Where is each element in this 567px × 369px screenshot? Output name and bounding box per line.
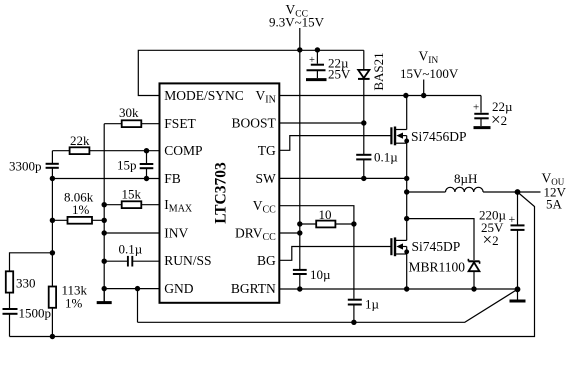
node junction VIN stub: [421, 93, 426, 98]
capacitor C8 15p: [140, 151, 154, 179]
resistor R3 15k: [104, 201, 159, 208]
capacitor C9 0.1u run/ss: [104, 256, 159, 267]
node junction 15p bottom: [144, 176, 149, 181]
svg-text:+: +: [309, 55, 315, 66]
node junction SW/0.1u: [361, 176, 366, 181]
svg-text:9.3V~15V: 9.3V~15V: [269, 15, 325, 30]
node junction BGRTN/MBR: [471, 286, 476, 291]
wire SW line: [279, 177, 406, 179]
label C6 value: [479, 208, 507, 250]
svg-text:15V~100V: 15V~100V: [400, 66, 459, 81]
svg-text:MODE/SYNC: MODE/SYNC: [164, 88, 244, 103]
node junction FB/railB: [50, 176, 55, 181]
svg-text:FSET: FSET: [164, 116, 196, 131]
node junction 8.06k left: [50, 218, 55, 223]
node junction 1u/gnd wire: [351, 320, 356, 325]
label R7 value: [62, 283, 88, 311]
capacitor C7 3300p: [46, 151, 59, 286]
resistor R1 30k: [104, 120, 159, 127]
transistor Q1 Si7456DP: [391, 96, 409, 179]
wire VCC pin line: [279, 206, 354, 299]
node junction VCC-rail/top: [297, 47, 302, 52]
node junction GND/drop: [135, 286, 140, 291]
node junction BGRTN/Q2: [404, 286, 409, 291]
svg-text:Si7456DP: Si7456DP: [411, 129, 467, 144]
capacitor C5 1u: [348, 300, 362, 323]
resistor R5 10: [300, 221, 354, 228]
label C1 value: [328, 56, 351, 82]
svg-text:BOOST: BOOST: [232, 115, 277, 130]
wire VCC vertical rail: [299, 50, 301, 269]
svg-text:0.1µ: 0.1µ: [119, 242, 143, 257]
node junction 15p top: [144, 148, 149, 153]
svg-text:FB: FB: [164, 171, 181, 186]
node junction power ground: [515, 286, 521, 292]
ground below C2: [474, 126, 491, 129]
diode D1 BAS21: [358, 50, 370, 123]
capacitor C3 0.1u boost: [356, 123, 371, 178]
svg-text:30k: 30k: [119, 105, 139, 120]
wire VIN rail: [279, 95, 481, 97]
svg-text:330: 330: [16, 276, 36, 291]
wire VIN label stub: [423, 80, 425, 96]
wire feedback diagonal from output: [10, 192, 535, 337]
svg-text:RUN/SS: RUN/SS: [164, 253, 211, 268]
wire left ground rail: [103, 124, 105, 302]
node VIN supply label: [400, 49, 459, 81]
node junction 330 branch: [50, 250, 55, 255]
svg-text:1%: 1%: [72, 202, 90, 217]
svg-text:3300p: 3300p: [9, 159, 42, 174]
diode D2 MBR1100: [407, 219, 480, 289]
resistor R2 22k: [52, 147, 159, 154]
node junction 10 right: [351, 221, 356, 226]
node junction 8.06k right: [102, 218, 107, 223]
svg-text:BAS21: BAS21: [371, 52, 386, 90]
ground below C1: [306, 78, 327, 81]
node junction BOOST: [361, 120, 366, 125]
svg-text:22k: 22k: [70, 133, 90, 148]
node VOUT label: [542, 171, 567, 212]
svg-text:25V: 25V: [328, 67, 351, 82]
capacitor C10 1500p: [3, 309, 18, 337]
node output junction: [515, 189, 521, 195]
svg-text:15p: 15p: [117, 158, 137, 173]
wire BG line: [279, 247, 391, 261]
svg-text:×2: ×2: [491, 110, 507, 129]
capacitor C4 10u: [293, 269, 307, 290]
svg-text:COMP: COMP: [164, 143, 202, 158]
node junction Q1 drain / VIN rail: [403, 93, 408, 98]
wire GND drop: [137, 289, 139, 323]
svg-text:10: 10: [319, 207, 332, 222]
node junction 15k left: [102, 202, 107, 207]
wire FB line: [52, 178, 159, 180]
wire DRVCC line: [279, 232, 300, 234]
wire GND return diagonal: [138, 289, 518, 322]
transistor Q2 Si745DP: [391, 178, 409, 289]
wire output stub: [518, 191, 541, 193]
svg-text:+: +: [509, 212, 516, 226]
node junction INV: [102, 230, 107, 235]
svg-text:10µ: 10µ: [310, 267, 331, 282]
svg-text:1µ: 1µ: [365, 297, 380, 312]
wire BOOST line: [279, 122, 364, 124]
node junction SW/MBR branch: [404, 216, 409, 221]
wire top VCC rail: [138, 50, 363, 95]
label C2 value: [491, 99, 513, 129]
node junction SW rail: [404, 176, 409, 181]
resistor R7 113k: [49, 287, 56, 337]
node junction 113k bottom rail: [50, 334, 55, 339]
svg-text:15k: 15k: [122, 187, 142, 202]
node junction DRVCC: [297, 230, 302, 235]
svg-text:1500p: 1500p: [19, 306, 52, 321]
svg-text:×2: ×2: [483, 230, 499, 249]
wire 330 branch top: [10, 253, 53, 271]
svg-text:Si745DP: Si745DP: [412, 239, 461, 254]
svg-text:GND: GND: [164, 281, 193, 296]
capacitor C1 22u 25V: [307, 50, 326, 79]
op-amp U1 LTC3703 IC box: [160, 83, 280, 302]
ground signal left: [97, 289, 112, 303]
svg-text:BGRTN: BGRTN: [231, 281, 276, 296]
svg-text:BG: BG: [257, 253, 276, 268]
wire VCC label stub: [299, 28, 301, 50]
node junction 22u/top: [315, 47, 320, 52]
resistor R6 330: [6, 271, 13, 308]
svg-text:5A: 5A: [546, 197, 563, 212]
inductor L1 8uH: [407, 187, 518, 192]
node junction GND/rail: [102, 286, 107, 291]
capacitor C6 220u 25V x2: [509, 192, 525, 289]
resistor R4 8.06k: [52, 217, 104, 224]
svg-text:0.1µ: 0.1µ: [374, 150, 398, 165]
node junction SW/inductor: [404, 189, 409, 194]
svg-text:8µH: 8µH: [454, 171, 477, 186]
svg-text:INV: INV: [164, 226, 188, 241]
svg-text:+: +: [473, 102, 479, 114]
capacitor C2 22u x2: [473, 96, 489, 127]
wire BGRTN line: [279, 288, 517, 290]
svg-text:SW: SW: [256, 171, 277, 186]
wire GND pin line: [104, 288, 159, 290]
label R4 value: [64, 190, 94, 218]
wire INV line: [104, 232, 159, 234]
node junction RUN/SS rail: [102, 259, 107, 264]
svg-text:LTC3703: LTC3703: [213, 162, 230, 224]
node junction BGRTN/10u: [297, 286, 302, 291]
node junction 10 left: [297, 221, 302, 226]
svg-text:1%: 1%: [65, 296, 83, 311]
ground power output: [510, 289, 526, 301]
wire TG line: [279, 136, 391, 151]
node VCC supply label: [269, 2, 325, 30]
svg-text:TG: TG: [258, 143, 276, 158]
svg-text:MBR1100: MBR1100: [409, 260, 466, 275]
